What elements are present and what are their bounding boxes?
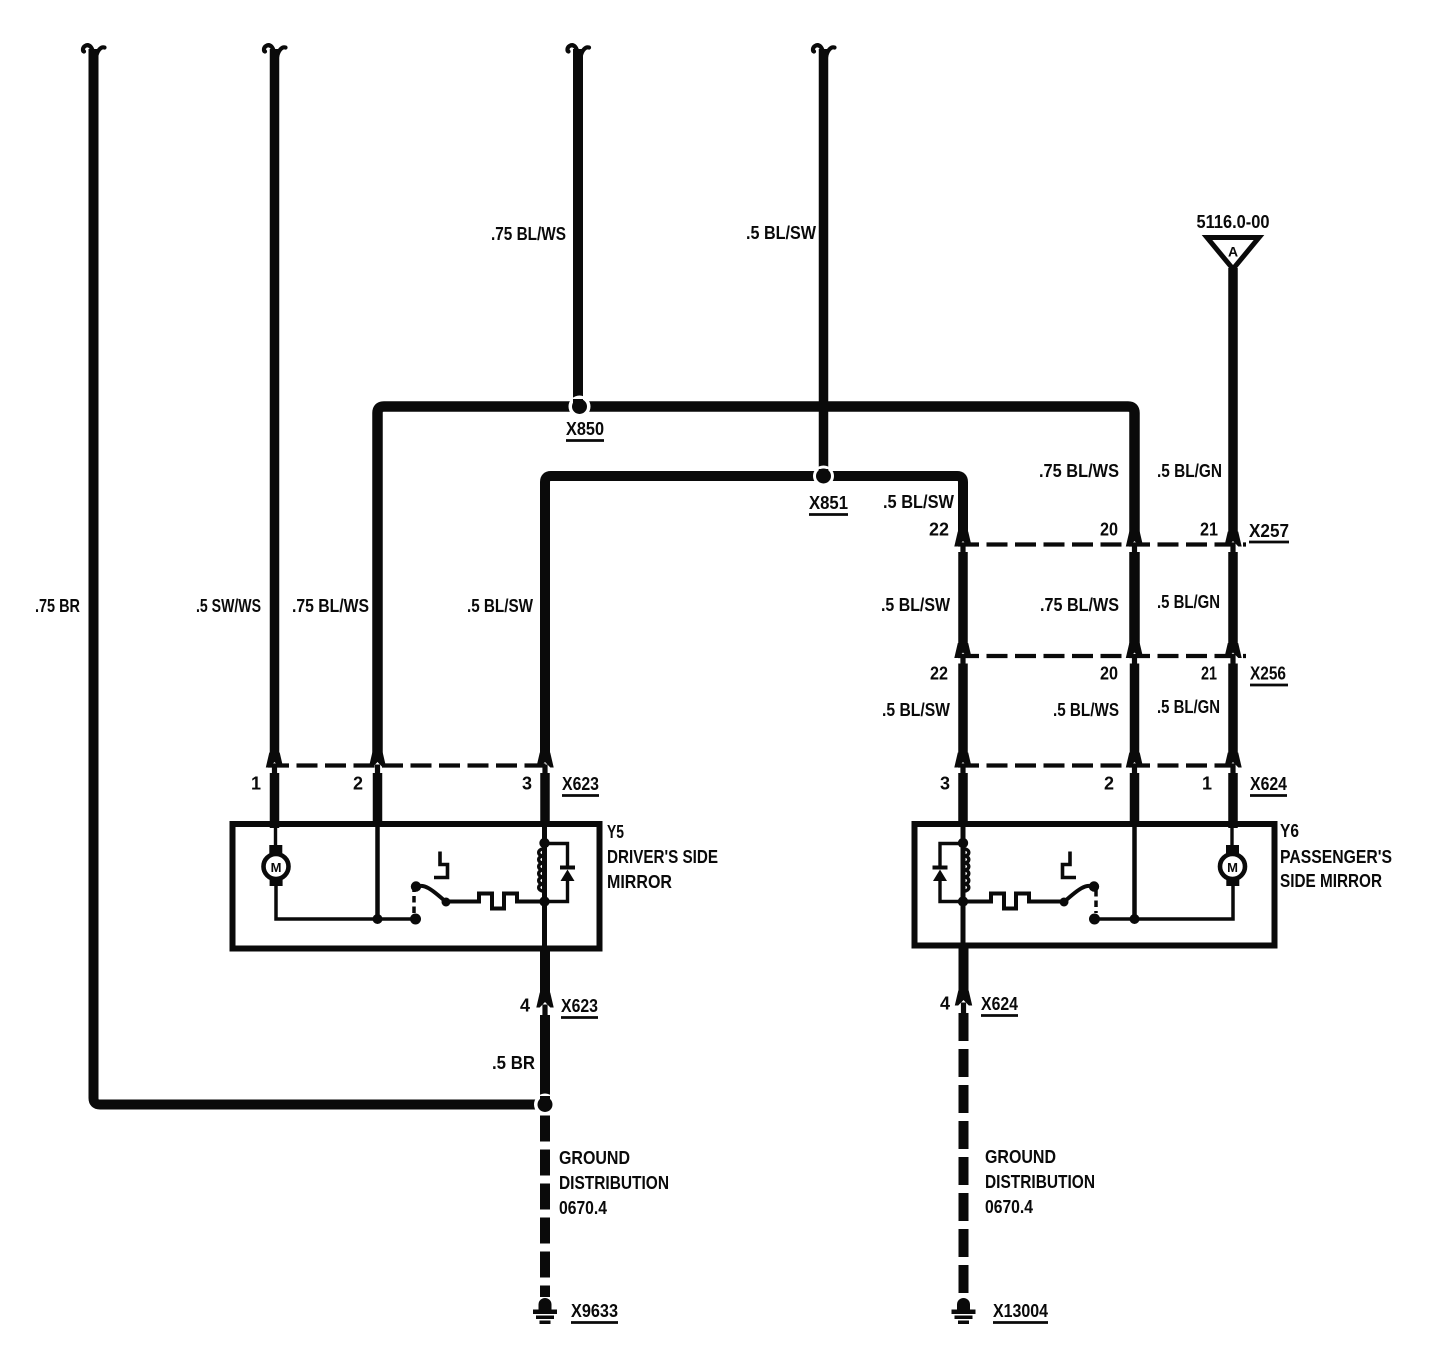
svg-text:1: 1 bbox=[251, 774, 261, 794]
wire Y5 pin4 below box bbox=[540, 946, 550, 994]
svg-text:.5 BL/SW: .5 BL/SW bbox=[883, 492, 954, 512]
wire .5 BL/WS X256-20 to X624-2 bbox=[1130, 664, 1140, 754]
svg-text:MIRROR: MIRROR bbox=[607, 872, 672, 892]
node X850 junction dot bbox=[569, 396, 591, 418]
wire X623-1 into Y5 box to motor bbox=[270, 773, 280, 828]
wire X850 run: down to X623 pin2, horizontal bus, down to X257 pin20 bbox=[378, 407, 1135, 754]
svg-text:X623: X623 bbox=[562, 774, 599, 794]
svg-text:.75 BR: .75 BR bbox=[35, 596, 80, 616]
wire dashed to ground X9633 bbox=[540, 1116, 550, 1298]
svg-text:.5 BL/SW: .5 BL/SW bbox=[746, 223, 816, 243]
svg-text:X624: X624 bbox=[981, 994, 1018, 1014]
node junction pin2 bottom rail Y5 bbox=[373, 914, 383, 924]
svg-text:3: 3 bbox=[940, 774, 950, 794]
svg-text:.75 BL/WS: .75 BL/WS bbox=[1039, 461, 1119, 481]
svg-text:SIDE MIRROR: SIDE MIRROR bbox=[1280, 871, 1382, 891]
wire pin2 internal Y5 bbox=[375, 826, 380, 919]
svg-text:X623: X623 bbox=[561, 996, 598, 1016]
connector X623 pin 2 bbox=[369, 753, 386, 777]
svg-text:0670.4: 0670.4 bbox=[559, 1198, 607, 1218]
wire .5 BL/SW X257-22 to X256-22 bbox=[958, 552, 968, 645]
svg-text:Y6: Y6 bbox=[1280, 821, 1299, 841]
svg-text:.5 BL/GN: .5 BL/GN bbox=[1157, 592, 1220, 612]
ground symbol X9633 bbox=[533, 1298, 557, 1324]
svg-text:X624: X624 bbox=[1250, 774, 1287, 794]
wire .5 BR to ground junction bbox=[540, 1015, 550, 1105]
switch blade Y6 bbox=[1064, 886, 1094, 902]
switch fixed contact Y6 bbox=[1063, 852, 1077, 878]
svg-text:.75 BL/WS: .75 BL/WS bbox=[292, 596, 369, 616]
wire X623-2 into Y5 box bbox=[373, 773, 383, 826]
switch contact dot Y6 bbox=[1060, 898, 1069, 907]
off-page arrow top of .75 BL/WS wire bbox=[567, 45, 589, 57]
wire pin3 internal vertical Y5 bbox=[542, 826, 547, 949]
svg-text:.5 BL/SW: .5 BL/SW bbox=[467, 596, 533, 616]
diode D of Y5 bbox=[545, 844, 576, 902]
wire .75 BR (left vertical and bottom horizontal run) bbox=[94, 49, 537, 1105]
connector X257 pin 22 bbox=[954, 532, 971, 556]
wire dashed to ground X13004 bbox=[959, 1013, 969, 1297]
wire X623-3 into Y5 box bbox=[540, 773, 550, 826]
node junction pin2 bottom rail Y6 bbox=[1130, 914, 1140, 924]
wire Y6 pin4 below box bbox=[959, 943, 969, 992]
svg-text:.5 BL/GN: .5 BL/GN bbox=[1157, 697, 1220, 717]
svg-text:20: 20 bbox=[1100, 664, 1118, 684]
wire pin2 internal Y6 bbox=[1132, 826, 1137, 919]
svg-text:Y5: Y5 bbox=[607, 822, 624, 842]
connector X257 pin 20 bbox=[1126, 532, 1143, 556]
svg-text:X257: X257 bbox=[1249, 521, 1289, 541]
connector X256 pin 21 bbox=[1224, 643, 1241, 667]
heater resistor element Y6 bbox=[963, 894, 1064, 909]
node junction .5 BR with .75 BR bbox=[534, 1094, 556, 1116]
svg-text:GROUND: GROUND bbox=[985, 1147, 1056, 1167]
svg-text:DRIVER'S SIDE: DRIVER'S SIDE bbox=[607, 847, 718, 867]
ground symbol X13004 bbox=[952, 1298, 976, 1324]
svg-text:0670.4: 0670.4 bbox=[985, 1197, 1033, 1217]
node linkage anchor Y5 bbox=[410, 914, 421, 925]
component Y5 driver side mirror box bbox=[233, 824, 600, 949]
svg-text:.5 BR: .5 BR bbox=[492, 1053, 535, 1073]
svg-text:.75 BL/WS: .75 BL/WS bbox=[491, 224, 566, 244]
off-page arrow top of .5 SW/WS wire bbox=[264, 45, 286, 57]
svg-text:X9633: X9633 bbox=[571, 1301, 618, 1321]
connector X624 dashed row bbox=[958, 763, 1242, 767]
svg-text:3: 3 bbox=[522, 774, 532, 794]
svg-text:M: M bbox=[271, 860, 282, 875]
motor M of Y6 bbox=[1230, 826, 1233, 847]
svg-text:2: 2 bbox=[1104, 774, 1114, 794]
svg-text:DISTRIBUTION: DISTRIBUTION bbox=[559, 1173, 669, 1193]
diode D of Y6 bbox=[933, 844, 964, 902]
svg-text:M: M bbox=[1227, 860, 1238, 875]
svg-text:DISTRIBUTION: DISTRIBUTION bbox=[985, 1172, 1095, 1192]
connector X256 pin 20 bbox=[1126, 643, 1143, 667]
wire motor to bottom rail Y5 bbox=[276, 885, 416, 919]
switch pivot Y6 bbox=[1089, 881, 1099, 891]
off-page arrow top of .75 BR wire bbox=[83, 45, 105, 57]
heater resistor element Y5 bbox=[446, 894, 545, 909]
svg-text:.5 BL/SW: .5 BL/SW bbox=[881, 595, 950, 615]
svg-text:.5 SW/WS: .5 SW/WS bbox=[196, 596, 261, 616]
node linkage anchor Y6 bbox=[1089, 914, 1100, 925]
node X851 junction dot bbox=[813, 466, 834, 487]
wire .5 BL/SW (vertical down to node X851) bbox=[819, 49, 829, 471]
connector X257 dashed row bbox=[958, 542, 1246, 546]
connector X623 dashed row bbox=[268, 763, 552, 767]
switch fixed contact Y5 bbox=[434, 852, 448, 878]
inductor coil Y5 bbox=[539, 849, 543, 891]
connector X623 pin 1 bbox=[266, 753, 283, 777]
svg-text:22: 22 bbox=[930, 664, 948, 684]
connector X623 pin 4 bbox=[536, 993, 553, 1017]
connector X624 pin 3 bbox=[954, 753, 971, 777]
switch pivot Y5 bbox=[411, 881, 421, 891]
node coil bottom Y6 bbox=[958, 896, 968, 906]
svg-text:2: 2 bbox=[353, 774, 363, 794]
wire .5 BL/GN X256-21 to X624-1 bbox=[1228, 664, 1238, 754]
connector X624 pin 4 bbox=[955, 991, 972, 1015]
svg-text:21: 21 bbox=[1200, 520, 1218, 540]
svg-text:1: 1 bbox=[1202, 774, 1212, 794]
connector X623 pin 3 bbox=[536, 753, 553, 777]
connector X256 pin 22 bbox=[954, 643, 971, 667]
svg-text:X850: X850 bbox=[566, 419, 604, 439]
wire X851 run: down to X623 pin3, horizontal bus, down to X257 pin22 bbox=[545, 476, 963, 754]
wire X624-2 into Y6 box bbox=[1130, 773, 1140, 826]
node coil top Y5 bbox=[539, 838, 549, 848]
connector X624 pin 2 bbox=[1126, 753, 1143, 777]
svg-text:5116.0-00: 5116.0-00 bbox=[1197, 212, 1270, 232]
wire .5 SW/WS (vertical to X623 pin 1) bbox=[270, 49, 280, 754]
connector X624 pin 1 bbox=[1224, 753, 1241, 777]
svg-text:21: 21 bbox=[1201, 664, 1217, 684]
svg-text:X256: X256 bbox=[1250, 664, 1286, 684]
svg-text:A: A bbox=[1228, 244, 1238, 260]
wire bottom rail to motor Y6 bbox=[1095, 885, 1234, 919]
wire .5 BL/SW X256-22 to X624-3 bbox=[958, 664, 968, 754]
mechanical linkage dashed Y5 bbox=[412, 890, 416, 913]
svg-text:4: 4 bbox=[940, 994, 950, 1014]
wire .75 BL/WS X257-20 to X256-20 bbox=[1129, 552, 1140, 645]
motor M of Y5 bbox=[274, 826, 277, 847]
node coil bottom Y5 bbox=[539, 896, 549, 906]
node coil top Y6 bbox=[958, 838, 968, 848]
connector X257 pin 21 bbox=[1224, 532, 1241, 556]
wire .75 BL/WS (vertical down to node X850) bbox=[573, 49, 583, 402]
switch contact dot Y5 bbox=[442, 898, 451, 907]
svg-text:GROUND: GROUND bbox=[559, 1148, 630, 1168]
svg-text:.5 BL/WS: .5 BL/WS bbox=[1053, 700, 1119, 720]
svg-text:.5 BL/SW: .5 BL/SW bbox=[882, 700, 950, 720]
off-page arrow top of .5 BL/SW wire bbox=[813, 45, 835, 57]
switch blade Y5 bbox=[416, 886, 446, 902]
svg-text:.75 BL/WS: .75 BL/WS bbox=[1040, 595, 1119, 615]
wire .5 BL/GN triangle to X257 pin 21 bbox=[1228, 268, 1238, 533]
svg-text:20: 20 bbox=[1100, 520, 1118, 540]
mechanical linkage dashed Y6 bbox=[1094, 890, 1098, 913]
svg-text:4: 4 bbox=[520, 996, 530, 1016]
svg-text:22: 22 bbox=[929, 520, 949, 540]
off-page triangle connector A bbox=[1207, 238, 1259, 270]
svg-text:PASSENGER'S: PASSENGER'S bbox=[1280, 847, 1392, 867]
connector X256 dashed row bbox=[958, 654, 1246, 658]
wire X624-1 into Y6 box to motor bbox=[1228, 773, 1238, 828]
svg-text:X851: X851 bbox=[809, 493, 848, 513]
svg-text:.5 BL/GN: .5 BL/GN bbox=[1157, 461, 1222, 481]
wire X624-3 into Y6 box bbox=[958, 773, 968, 826]
component Y6 passenger side mirror box bbox=[915, 824, 1275, 946]
inductor coil Y6 bbox=[965, 849, 969, 891]
wire pin3 internal vertical Y6 bbox=[961, 826, 966, 946]
svg-text:X13004: X13004 bbox=[993, 1301, 1048, 1321]
wire .5 BL/GN X257-21 to X256-21 bbox=[1228, 552, 1238, 645]
